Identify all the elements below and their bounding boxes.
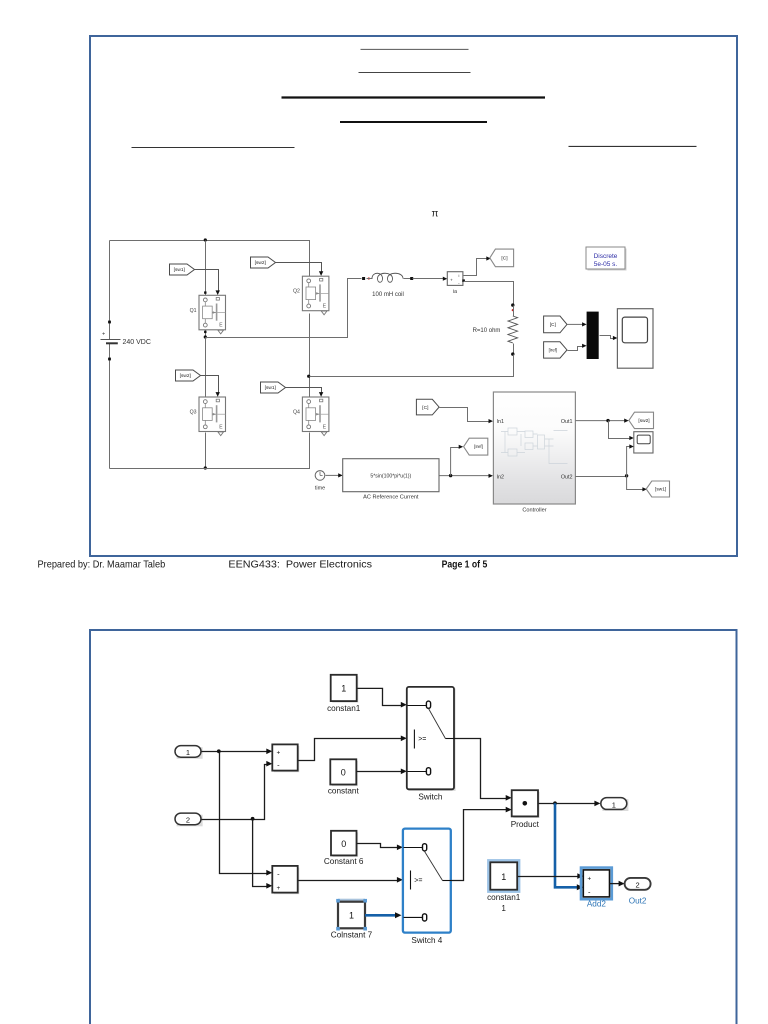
scope1: [634, 432, 653, 453]
svg-text:ia: ia: [453, 289, 457, 295]
svg-text:Discrete: Discrete: [594, 253, 618, 260]
transistor Q4: [302, 397, 329, 436]
svg-text:+: +: [450, 277, 453, 282]
svg-text:+: +: [277, 750, 281, 757]
tag [sw1] from (gate Q4): [261, 382, 286, 393]
header line 3 (thick): [282, 96, 546, 98]
wire gate Q2: [276, 263, 322, 272]
wire branch to [Iref]: [451, 448, 460, 476]
svg-text:Out2: Out2: [561, 474, 573, 480]
sum block Add (top): [274, 746, 299, 772]
svg-text:+: +: [587, 876, 591, 883]
svg-text:[Iref]: [Iref]: [549, 347, 557, 352]
wire switch to product: [455, 739, 508, 799]
svg-text:constan1: constan1: [487, 893, 521, 902]
svg-text:π: π: [432, 209, 439, 220]
inport 1: [177, 747, 203, 759]
wire Out1 to [sw2]: [575, 420, 624, 422]
node B junction: [307, 375, 310, 378]
wire inport1 to sum1: [202, 751, 269, 753]
tag [sw1] from (gate Q1): [170, 264, 195, 275]
wire Out2 branch to scope1 in2: [627, 447, 630, 477]
svg-text:1: 1: [341, 684, 346, 694]
wire battery top: [109, 241, 111, 340]
transistor Q1: [199, 295, 226, 334]
wire node A to coil: [206, 279, 362, 338]
wire Q3 source: [205, 433, 207, 469]
wire Out2 branch to [sw1]: [627, 477, 643, 490]
outport 1: [602, 799, 628, 811]
wire sum2 to switch4: [299, 880, 399, 882]
svg-text:Q1: Q1: [190, 308, 197, 314]
svg-text:1: 1: [501, 904, 506, 913]
current measurement ia: [447, 272, 463, 286]
tag [sw1] goto: [646, 481, 669, 497]
wire [Iref] to mux: [568, 347, 583, 351]
svg-text:Prepared by: Dr. Maamar Taleb: Prepared by: Dr. Maamar Taleb: [38, 559, 166, 571]
svg-text:[sw2]: [sw2]: [180, 373, 191, 379]
svg-text:[sw2]: [sw2]: [255, 260, 266, 266]
svg-text:5e-05 s.: 5e-05 s.: [594, 261, 618, 268]
switch block Switch: [408, 689, 455, 791]
constant1 block: [332, 676, 358, 702]
thick blue wire constant7 to switch4: [365, 914, 395, 917]
svg-text:In2: In2: [497, 474, 505, 480]
svg-text:[sw2]: [sw2]: [638, 418, 649, 424]
wire Q1 drain: [205, 241, 207, 296]
svg-text:EENG433: Power Electronics: EENG433: Power Electronics: [228, 559, 372, 571]
wire inport2 to sum1 in2: [202, 765, 269, 820]
wire constant1 to switch: [358, 688, 403, 705]
svg-text:Page 1 of 5: Page 1 of 5: [442, 559, 488, 571]
inductor 100 mH coil: [362, 277, 365, 280]
mux: [587, 312, 599, 359]
svg-text:>=: >=: [418, 736, 426, 743]
svg-text:240 VDC: 240 VDC: [123, 339, 151, 346]
svg-text:Product: Product: [511, 820, 540, 829]
wire [C] to In1: [440, 408, 489, 422]
header line 4 (thick): [340, 121, 487, 123]
wire inport1 down to sum2: [220, 752, 269, 874]
svg-text:1: 1: [612, 800, 616, 809]
thick blue wire product to Add2: [555, 803, 578, 887]
tag [C] from (to In1): [416, 399, 439, 415]
svg-text:[sw1]: [sw1]: [265, 385, 276, 391]
svg-text:Controller: Controller: [522, 508, 546, 514]
wire switch4 to product in2: [452, 810, 508, 881]
wire ia signal to [C]: [464, 259, 487, 276]
header line 1: [361, 48, 469, 50]
sum block Add (bottom): [274, 868, 299, 895]
svg-text:[Iref]: [Iref]: [474, 444, 483, 449]
constant block: [332, 761, 358, 786]
clock time: [315, 471, 325, 481]
wire gate Q4: [286, 388, 322, 393]
wire Out2: [575, 476, 626, 478]
svg-text:constant: constant: [328, 787, 360, 796]
svg-text:+: +: [102, 332, 105, 338]
svg-text:[C]: [C]: [501, 256, 507, 262]
node bottom junction: [204, 466, 207, 469]
svg-text:Q3: Q3: [190, 410, 197, 416]
header line 5 right: [569, 145, 697, 147]
svg-text:Switch 4: Switch 4: [411, 936, 442, 945]
wire gate Q3: [201, 376, 219, 393]
svg-text:5*sin(100*pi*u(1)): 5*sin(100*pi*u(1)): [370, 473, 411, 479]
wire constan1 to Add2: [518, 876, 578, 878]
battery V1 240 VDC: [108, 321, 111, 324]
resistor R=10 ohm: [511, 303, 514, 306]
svg-text:100 mH coil: 100 mH coil: [372, 292, 404, 298]
svg-text:i: i: [458, 273, 459, 278]
wire top rail: [110, 241, 310, 277]
page 1 border box: [90, 36, 737, 556]
node top junction: [204, 238, 207, 241]
wire fcn to In2: [440, 475, 489, 477]
svg-text:1: 1: [186, 748, 190, 757]
svg-text:In1: In1: [497, 419, 505, 425]
header line 5 left: [132, 147, 295, 149]
wire Add2 to Out2: [610, 883, 621, 885]
tag [C] from (to mux): [544, 316, 567, 333]
wire sum1 to switch: [299, 739, 403, 761]
svg-text:+: +: [277, 885, 281, 892]
wire gate Q1: [195, 270, 219, 291]
svg-text:AC Reference Current: AC Reference Current: [363, 494, 419, 500]
svg-text:[sw1]: [sw1]: [655, 487, 666, 493]
tag [sw2] from (gate Q3): [176, 370, 201, 381]
svg-text:R=10 ohm: R=10 ohm: [473, 328, 501, 334]
svg-text:constan1: constan1: [327, 704, 361, 713]
outport Out2: [625, 878, 651, 890]
wire inport2 down to sum2 in2: [253, 820, 269, 887]
svg-text:[C]: [C]: [550, 322, 556, 328]
wire ia out to resistor: [462, 279, 465, 282]
svg-text:[C]: [C]: [422, 405, 428, 411]
discrete solver block: [588, 249, 627, 271]
tag [Iref] goto: [464, 438, 488, 455]
wire constant6 to switch4: [357, 844, 399, 848]
transistor Q3: [199, 397, 226, 436]
header line 2: [359, 72, 471, 74]
wire bottom rail: [110, 433, 310, 469]
svg-text:Constant 6: Constant 6: [324, 857, 364, 866]
wire Q1 source to node A: [205, 330, 207, 338]
svg-text:>=: >=: [414, 877, 422, 884]
wire mux to scope: [600, 336, 614, 339]
svg-text:[sw1]: [sw1]: [174, 267, 185, 273]
scope: [617, 309, 653, 369]
wire constant to switch: [357, 771, 403, 773]
svg-text:2: 2: [186, 816, 190, 825]
svg-text:0: 0: [341, 839, 346, 849]
wire coil to ia: [413, 278, 444, 280]
wire Q2 source / Q4 drain: [309, 314, 311, 398]
tag [Iref] from (to mux): [544, 342, 567, 358]
wire clock to fcn: [326, 474, 339, 476]
tag [C] goto (ia): [490, 249, 514, 267]
node A junction: [204, 335, 207, 338]
wire [C] to mux: [568, 323, 583, 325]
wire Out1 branch to scope1: [609, 421, 630, 439]
tag [sw2] from (gate Q2): [251, 257, 276, 268]
svg-text:time: time: [315, 486, 325, 492]
svg-text:1: 1: [501, 872, 506, 882]
svg-text:0: 0: [341, 768, 346, 778]
wire resistor to node B: [310, 355, 514, 377]
constant 7 block (selected): [338, 899, 365, 902]
page 2 border box (no bottom edge visible): [90, 630, 737, 1024]
switch block Switch 4 (highlighted): [403, 829, 451, 933]
wire product out: [539, 803, 597, 805]
svg-text:1: 1: [349, 911, 354, 921]
svg-text:2: 2: [636, 881, 640, 890]
svg-text:Q2: Q2: [293, 289, 300, 295]
product block: [513, 792, 539, 818]
svg-text:Out2: Out2: [629, 897, 647, 906]
fcn block AC Reference Current: [343, 459, 439, 492]
constant 6 block: [333, 832, 359, 857]
svg-text:Q4: Q4: [293, 410, 300, 416]
svg-text:Out1: Out1: [561, 419, 573, 425]
transistor Q2: [302, 276, 329, 315]
wire Q3 branch: [205, 338, 207, 398]
constant block constan1 1: [488, 860, 519, 891]
wire battery bottom: [109, 344, 111, 469]
inport 2: [177, 815, 203, 827]
svg-text:Switch: Switch: [418, 793, 443, 802]
tag [sw2] goto: [629, 412, 654, 428]
svg-text:Add2: Add2: [587, 900, 607, 909]
svg-text:Colnstant 7: Colnstant 7: [331, 931, 373, 940]
add2 block (highlighted): [581, 868, 612, 900]
